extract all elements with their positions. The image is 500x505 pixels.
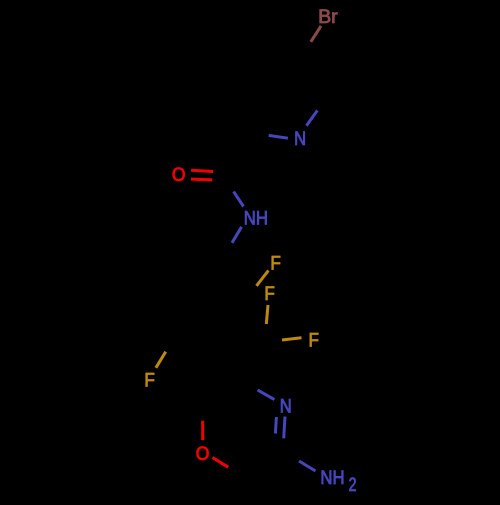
wire carbon half of N4=C3 main line [282, 438, 285, 452]
carbonyl double bond C=O lower line [191, 178, 212, 182]
wire pyridine bond C3-C4 [257, 50, 304, 54]
bond C-NH2 (half near NH2) [299, 461, 316, 471]
wire bond C6-C(=O) [228, 134, 253, 176]
wire aromatic inner line C4=C5 pyridine [241, 61, 257, 86]
svg-text:F: F [309, 330, 320, 351]
bond N-C left (half near N) [269, 135, 288, 138]
wire bond B3-C5ox [222, 339, 244, 382]
wire pyridine bond C4-C5 [232, 50, 257, 90]
wire oxazine bond C2-C3 [241, 454, 284, 474]
wire carbon half of C3-NH2 [284, 454, 299, 461]
wire bond C5ox-CHF2 [244, 340, 265, 382]
wire carbon half of NH-B1 [224, 243, 233, 256]
wire aromatic inner line B1=B2 [223, 266, 238, 292]
wire benzene bond B4-B5 [150, 296, 173, 338]
wire benzene bond B6-B1 [175, 254, 223, 255]
svg-text:F: F [264, 284, 275, 305]
wire carbon half of Oring-C2 [228, 467, 241, 474]
bond C-F2 (half near F2) [266, 305, 268, 324]
svg-text:NH: NH [320, 468, 344, 489]
wire carbon half of F4-B4 [166, 338, 174, 352]
bond C-F1 (half near F1) [257, 271, 269, 286]
bond N(H)-C aryl (half near NH) [232, 227, 242, 243]
wire carbon half of N4=C3 inner line [274, 434, 277, 448]
wire carbon half of Ntop-C2 [317, 98, 325, 111]
bond O-C up (half near O) [201, 421, 204, 441]
wire pyridine bond C5-C6 [232, 90, 253, 134]
wire carbon half of C=O upper line [213, 170, 228, 174]
wire carbon half of N4-C5ox [244, 382, 258, 390]
wire carbon half of Br-C3 [304, 42, 311, 55]
wire aromatic inner line B3=B4 [183, 331, 213, 335]
svg-text:O: O [196, 444, 210, 465]
wire carbon half of F1-B2 [247, 286, 257, 298]
bond C-N ring (half near ring N) [258, 390, 275, 400]
wire carbon half of F2-CHF2 [264, 324, 268, 340]
wire carbon half of F3-CHF2 [265, 339, 282, 342]
svg-text:F: F [144, 370, 155, 391]
svg-text:Br: Br [318, 7, 338, 28]
wire carbon half of Ntop-C6 [253, 134, 269, 136]
svg-text:N: N [280, 397, 292, 418]
wire carbon half of C(=O)-NH [228, 176, 234, 190]
wire oxazine bond C5-C6 [203, 382, 244, 405]
svg-text:O: O [172, 165, 186, 186]
wire pyridine bond C2-C3 [304, 54, 325, 98]
svg-text:F: F [270, 253, 281, 274]
double bond N=C main line (half near N) [284, 417, 285, 439]
wire benzene bond B2-B3 [222, 298, 247, 339]
bond C-F4 (half near F4, aryl fluorine) [156, 352, 166, 368]
bond N-C up-right (half near N) [306, 110, 317, 125]
wire carbon half of C=O lower line [212, 180, 228, 181]
bond C(=O)-N(H) (half near NH) [234, 192, 244, 207]
svg-text:2: 2 [349, 475, 357, 496]
svg-text:NH: NH [244, 208, 268, 229]
bond C-Br (half near Br) [311, 26, 321, 42]
wire carbon half of Oring-C6 [201, 405, 204, 421]
bond O-C down-right (half near O) [213, 458, 229, 468]
wire aromatic inner line B5=B6 [160, 265, 176, 291]
double bond N=C inner line (half near N) [275, 417, 276, 434]
svg-text:N: N [294, 129, 306, 150]
wire benzene bond B5-B6 [150, 254, 175, 295]
wire benzene bond B1-B2 [224, 255, 247, 297]
wire benzene bond B3-B4 [174, 338, 222, 339]
bond C-F3 (half near F3) [282, 338, 302, 340]
carbonyl double bond C=O upper line [191, 170, 213, 171]
wire aromatic inner line C2=C3 pyridine [303, 65, 316, 92]
